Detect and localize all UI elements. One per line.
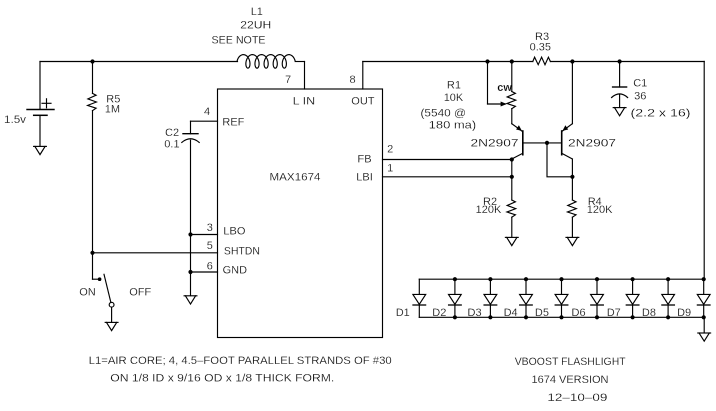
node junction R1 wiper rail bbox=[485, 59, 489, 63]
pin name OUT bbox=[351, 96, 375, 108]
node junction D4 bottom bbox=[524, 315, 528, 319]
label D5 bbox=[535, 307, 549, 319]
label D4 bbox=[504, 307, 518, 319]
wire pin 4 REF stub bbox=[191, 120, 218, 122]
svg-text:1M: 1M bbox=[105, 104, 120, 116]
diode D8 bbox=[662, 279, 675, 317]
note line 1 bbox=[89, 355, 392, 367]
label cw bbox=[497, 82, 512, 94]
wire R5 top bbox=[92, 62, 94, 94]
node junction D9 top bbox=[702, 277, 706, 281]
node junction FB bbox=[510, 157, 514, 161]
node junction SHTDN bbox=[90, 251, 94, 255]
node junction D3 top bbox=[488, 277, 492, 281]
svg-text:(2.2 x 16): (2.2 x 16) bbox=[631, 108, 691, 120]
pin 1 label bbox=[387, 162, 393, 174]
node junction LBO bbox=[188, 232, 192, 236]
node junction D2 top bbox=[453, 277, 457, 281]
node junction C1 rail bbox=[618, 59, 622, 63]
svg-text:D4: D4 bbox=[504, 307, 518, 319]
pin 4 label bbox=[204, 106, 210, 118]
svg-text:8: 8 bbox=[349, 74, 355, 86]
svg-text:FB: FB bbox=[358, 154, 372, 166]
node junction D3 bottom bbox=[488, 315, 492, 319]
diode D9 bbox=[697, 279, 710, 317]
ground IC bbox=[184, 296, 197, 304]
svg-text:R1: R1 bbox=[447, 80, 461, 92]
label C1 value bbox=[633, 78, 647, 103]
svg-text:0.35: 0.35 bbox=[530, 42, 551, 54]
transistor Q2 2N2907 bbox=[562, 124, 573, 159]
node junction D6 bottom bbox=[595, 315, 599, 319]
node junction D8 bottom bbox=[666, 315, 670, 319]
svg-text:120K: 120K bbox=[587, 204, 613, 216]
svg-text:L1=AIR CORE; 4, 4.5–FOOT PARAL: L1=AIR CORE; 4, 4.5–FOOT PARALLEL STRAND… bbox=[89, 355, 392, 367]
wire LED top bus bbox=[419, 278, 704, 280]
wire pin 2 FB bbox=[383, 159, 512, 161]
node junction GND pin bbox=[188, 270, 192, 274]
node junction D7 bottom bbox=[631, 315, 635, 319]
svg-text:D6: D6 bbox=[572, 307, 586, 319]
node junction D2 bottom bbox=[453, 315, 457, 319]
label Q1 2N2907 bbox=[471, 137, 519, 149]
label R5 value bbox=[105, 94, 121, 116]
svg-text:1674 VERSION: 1674 VERSION bbox=[532, 374, 609, 386]
wiper arrow bbox=[501, 102, 507, 107]
pin name SHTDN bbox=[224, 246, 260, 258]
svg-text:C2: C2 bbox=[165, 127, 179, 139]
transistor Q1 2N2907 bbox=[512, 124, 523, 159]
wire pin 8 bbox=[362, 62, 364, 90]
svg-text:1.5v: 1.5v bbox=[4, 114, 27, 126]
wire pin 6 GND stub bbox=[191, 271, 218, 273]
label D6 bbox=[572, 307, 586, 319]
svg-text:OFF: OFF bbox=[129, 286, 151, 298]
node junction D8 top bbox=[666, 277, 670, 281]
op-amp U1 MAX1674 box bbox=[218, 89, 383, 338]
svg-text:2N2907: 2N2907 bbox=[471, 137, 519, 149]
node junction D5 bottom bbox=[559, 315, 563, 319]
note line 2 bbox=[110, 373, 334, 385]
label Q2 2N2907 bbox=[568, 137, 616, 149]
label R4 value bbox=[587, 196, 613, 216]
node junction D4 top bbox=[524, 277, 528, 281]
ground battery bbox=[34, 146, 47, 154]
pin name REF bbox=[222, 117, 244, 129]
label L1 bbox=[251, 6, 263, 18]
title line 2 bbox=[532, 374, 609, 386]
svg-text:REF: REF bbox=[222, 117, 244, 129]
switch S1 arm bbox=[93, 274, 115, 322]
wire C2 to ground net bbox=[190, 140, 192, 295]
wire top rail left bbox=[40, 61, 238, 63]
title line 1 bbox=[515, 356, 626, 368]
label MAX1674 bbox=[270, 172, 321, 184]
svg-text:D5: D5 bbox=[535, 307, 549, 319]
node junction D7 top bbox=[631, 277, 635, 281]
pin 5 label bbox=[207, 240, 213, 252]
battery B1 1.5v bbox=[27, 62, 54, 147]
svg-text:D1: D1 bbox=[396, 307, 410, 319]
svg-text:OUT: OUT bbox=[351, 96, 375, 108]
label D2 bbox=[432, 307, 446, 319]
wire Q2 collector down bbox=[571, 159, 573, 200]
wire R5 bottom to switch bbox=[92, 111, 94, 280]
pin 6 label bbox=[207, 261, 213, 273]
capacitor C1 bbox=[612, 62, 628, 108]
svg-text:L1: L1 bbox=[251, 6, 263, 18]
pin name FB bbox=[358, 154, 372, 166]
label D8 bbox=[642, 307, 656, 319]
label SEE NOTE bbox=[212, 35, 266, 47]
svg-text:10K: 10K bbox=[444, 92, 464, 104]
svg-text:12–10–09: 12–10–09 bbox=[547, 392, 607, 404]
svg-text:D9: D9 bbox=[677, 307, 691, 319]
svg-text:SHTDN: SHTDN bbox=[224, 246, 260, 258]
ground C1 bbox=[613, 108, 626, 116]
svg-text:6: 6 bbox=[207, 261, 213, 273]
wire LED bottom bus bbox=[419, 316, 704, 318]
node junction D5 top bbox=[559, 277, 563, 281]
label D7 bbox=[607, 307, 621, 319]
svg-text:D3: D3 bbox=[468, 307, 482, 319]
svg-text:D8: D8 bbox=[642, 307, 656, 319]
svg-text:VBOOST FLASHLIGHT: VBOOST FLASHLIGHT bbox=[515, 356, 626, 368]
svg-text:2N2907: 2N2907 bbox=[568, 137, 616, 149]
wire Q1 collector down bbox=[511, 159, 513, 200]
pin 7 label bbox=[285, 74, 291, 86]
resistor R4 bbox=[568, 200, 577, 217]
label D1 bbox=[396, 307, 410, 319]
ground R4 bbox=[566, 237, 579, 245]
svg-text:(5540 @: (5540 @ bbox=[421, 108, 467, 120]
wire Q1 base bbox=[523, 142, 562, 144]
svg-text:D7: D7 bbox=[607, 307, 621, 319]
title date bbox=[547, 392, 607, 404]
label R2 value bbox=[476, 196, 502, 216]
node junction base tie bbox=[545, 141, 549, 145]
diode D4 bbox=[520, 279, 533, 317]
wire output rail bbox=[363, 61, 704, 63]
label R1 note bbox=[421, 108, 477, 132]
wire R1 wiper bbox=[488, 62, 506, 105]
wire rail to LED bus bbox=[703, 62, 705, 280]
label C2 value bbox=[164, 127, 179, 151]
svg-text:7: 7 bbox=[285, 74, 291, 86]
wire Q2 emitter bbox=[571, 62, 573, 124]
node junction R5 top bbox=[90, 59, 94, 63]
inductor L1 bbox=[237, 55, 305, 69]
diode D3 bbox=[484, 279, 497, 317]
pin name L IN bbox=[293, 96, 316, 108]
node junction D9 bottom bbox=[702, 315, 706, 319]
resistor R3 bbox=[533, 57, 551, 64]
capacitor C2 bbox=[182, 121, 199, 142]
svg-text:36: 36 bbox=[634, 91, 646, 103]
pin name GND bbox=[223, 265, 248, 277]
svg-text:cw: cw bbox=[497, 82, 512, 94]
resistor R1 bbox=[507, 92, 516, 109]
svg-text:120K: 120K bbox=[476, 204, 502, 216]
wire R1 top bbox=[511, 62, 513, 92]
wire R2 bottom bbox=[511, 217, 513, 237]
wire R4 bottom bbox=[571, 217, 573, 237]
svg-text:SEE NOTE: SEE NOTE bbox=[212, 35, 266, 47]
wire SHTDN net bbox=[93, 252, 218, 254]
svg-text:GND: GND bbox=[223, 265, 248, 277]
node junction D6 top bbox=[595, 277, 599, 281]
pin 8 label bbox=[349, 74, 355, 86]
node junction R1 top bbox=[510, 59, 514, 63]
node junction R4 top bbox=[570, 175, 574, 179]
diode D5 bbox=[555, 279, 568, 317]
svg-text:3: 3 bbox=[207, 222, 213, 234]
svg-text:22UH: 22UH bbox=[240, 20, 271, 32]
svg-text:ON: ON bbox=[79, 286, 96, 298]
svg-text:LBO: LBO bbox=[223, 226, 245, 238]
label R3 value bbox=[530, 31, 551, 54]
wire R1 to Q1 emitter bbox=[511, 109, 513, 124]
label OFF bbox=[129, 286, 151, 298]
svg-text:2: 2 bbox=[387, 144, 393, 156]
wire base tie to R4 bbox=[547, 143, 572, 177]
diode D7 bbox=[626, 279, 639, 317]
label R1 value bbox=[444, 80, 464, 105]
svg-text:MAX1674: MAX1674 bbox=[270, 172, 321, 184]
svg-text:4: 4 bbox=[204, 106, 210, 118]
wire pin 1 LBI bbox=[383, 176, 512, 178]
svg-text:C1: C1 bbox=[633, 78, 647, 90]
label D9 bbox=[677, 307, 691, 319]
wire pin 3 LBO stub bbox=[191, 234, 218, 236]
pin 2 label bbox=[387, 144, 393, 156]
resistor R2 bbox=[507, 200, 516, 217]
pin name LBI bbox=[356, 171, 373, 183]
diode D2 bbox=[449, 279, 462, 317]
label D3 bbox=[468, 307, 482, 319]
ground LED string bbox=[698, 333, 711, 341]
wire pin 7 bbox=[304, 62, 306, 90]
diode D6 bbox=[591, 279, 604, 317]
svg-text:L IN: L IN bbox=[293, 96, 316, 108]
node junction LBI bbox=[510, 175, 514, 179]
svg-text:D2: D2 bbox=[432, 307, 446, 319]
svg-text:LBI: LBI bbox=[356, 171, 373, 183]
label L1 value 22UH bbox=[240, 20, 271, 32]
node junction Q2 emitter rail bbox=[570, 59, 574, 63]
pin 3 label bbox=[207, 222, 213, 234]
svg-text:5: 5 bbox=[207, 240, 213, 252]
label ON bbox=[79, 286, 96, 298]
svg-text:1: 1 bbox=[387, 162, 393, 174]
ground switch bbox=[105, 322, 118, 330]
ground R2 bbox=[505, 237, 518, 245]
battery label 1.5v bbox=[4, 114, 27, 126]
pin name LBO bbox=[223, 226, 245, 238]
wire LED ground bbox=[703, 317, 705, 333]
label C1 note bbox=[631, 108, 691, 120]
resistor R5 bbox=[88, 93, 97, 110]
svg-text:0.1: 0.1 bbox=[164, 139, 179, 151]
diode D1 bbox=[413, 279, 426, 317]
svg-text:180 ma): 180 ma) bbox=[429, 120, 477, 132]
svg-text:ON 1/8 ID x 9/16 OD x 1/8 THIC: ON 1/8 ID x 9/16 OD x 1/8 THICK FORM. bbox=[110, 373, 334, 385]
